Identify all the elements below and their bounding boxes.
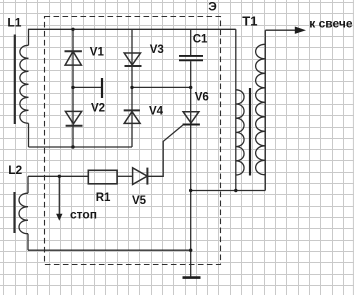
wire bottom bus of bridge xyxy=(29,146,133,148)
stop arrow shaft xyxy=(58,176,60,214)
L1 core xyxy=(14,35,16,125)
node dot top-left column xyxy=(71,28,74,31)
inductor L1 coil xyxy=(20,45,29,123)
svg-text:стоп: стоп xyxy=(70,208,97,222)
svg-text:V1: V1 xyxy=(90,46,105,58)
resistor R1 xyxy=(88,170,117,184)
spark arrow head xyxy=(295,27,306,34)
ground xyxy=(183,276,201,279)
svg-text:L2: L2 xyxy=(8,163,22,177)
diode V1 xyxy=(65,51,82,65)
transformer T1 secondary winding xyxy=(256,44,266,175)
open terminal bar (breaker contact) xyxy=(101,78,103,98)
thyristor V6 vertical wire (anode-cathode path down to ground) xyxy=(190,87,192,277)
diode V3 xyxy=(124,53,141,66)
wire R1 to V5 xyxy=(117,175,133,177)
wire bridge right column xyxy=(131,29,133,147)
wire L1 bottom lead xyxy=(28,123,30,147)
svg-text:V5: V5 xyxy=(132,195,147,207)
svg-text:L1: L1 xyxy=(7,16,21,30)
svg-text:к свече: к свече xyxy=(309,16,353,30)
thyristor V6 cathode bar xyxy=(183,124,200,126)
capacitor C1 xyxy=(179,56,203,60)
svg-text:Э: Э xyxy=(208,0,217,14)
wire top bus (L1 top to T1 primary) xyxy=(29,29,236,45)
diode V2 xyxy=(65,111,82,125)
wire V6 gate xyxy=(147,125,183,177)
wire L2 top rail xyxy=(28,175,88,177)
stop arrow head xyxy=(56,214,62,221)
transformer T1 primary chord wire xyxy=(235,29,237,190)
transformer T1 core xyxy=(249,88,251,176)
svg-text:T1: T1 xyxy=(242,13,257,28)
wire bridge left column xyxy=(72,29,74,147)
node dot left column mid xyxy=(71,86,74,89)
inductor L2 top lead xyxy=(27,176,29,193)
wire to spark plug xyxy=(265,29,296,31)
node dot bottom-left column xyxy=(71,145,74,148)
wire C1 bottom stub xyxy=(190,61,192,87)
svg-text:V4: V4 xyxy=(149,106,164,118)
capacitor C1 stub top xyxy=(190,29,192,55)
svg-text:C1: C1 xyxy=(193,33,208,45)
node dot primary bottom xyxy=(234,189,237,192)
wire V6 cathode node to transformer bottom xyxy=(191,190,266,192)
wire stub from left column mid node xyxy=(73,86,102,88)
L2 core xyxy=(13,192,15,233)
transformer T1 primary winding xyxy=(236,90,244,175)
node dot V6 cathode rail xyxy=(189,189,192,192)
diode V5 xyxy=(133,168,148,185)
svg-text:R1: R1 xyxy=(96,192,111,204)
inductor L2 coil xyxy=(19,193,28,234)
svg-text:V6: V6 xyxy=(195,92,209,104)
svg-text:V3: V3 xyxy=(150,44,164,56)
wire L2 bottom lead xyxy=(27,234,29,251)
diode V4 xyxy=(124,110,140,123)
node dot right column mid xyxy=(130,86,133,89)
node dot ground rail xyxy=(189,249,192,252)
node dot stop junction xyxy=(58,175,61,178)
svg-text:V2: V2 xyxy=(91,103,105,115)
wire bridge mid to V6 anode node xyxy=(132,86,191,88)
wire bottom rail to ground node xyxy=(28,249,191,251)
thyristor V6 triangle xyxy=(183,112,199,123)
dashed box Э (electronic unit boundary) xyxy=(45,17,221,265)
transformer T1 secondary chord wire xyxy=(264,30,266,190)
node dot V6 anode xyxy=(189,86,192,89)
